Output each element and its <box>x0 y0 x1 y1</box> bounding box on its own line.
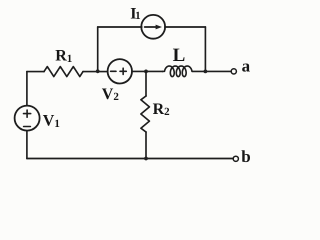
svg-text:I1: I1 <box>130 5 140 22</box>
wire R1 to V2 <box>83 71 108 73</box>
wire main left segment <box>27 71 44 73</box>
wire left branch upper vertical <box>26 72 28 106</box>
wire top loop left horizontal <box>98 26 142 28</box>
wire bottom <box>27 158 233 160</box>
svg-text:R1: R1 <box>55 48 72 65</box>
voltage source V1 <box>15 106 40 131</box>
wire V2 to inductor <box>132 70 163 72</box>
svg-text:V2: V2 <box>102 86 120 103</box>
wire top loop right horizontal <box>165 26 206 28</box>
junction dot at R2 top node <box>144 70 148 74</box>
wire R2 upper lead <box>145 71 147 96</box>
svg-text:b: b <box>241 147 250 166</box>
svg-text:R2: R2 <box>153 101 171 118</box>
svg-text:V1: V1 <box>43 113 60 130</box>
inductor L <box>163 66 192 77</box>
terminal b <box>233 156 238 161</box>
voltage source V2 <box>108 59 132 83</box>
junction dot at R2 bottom node <box>144 157 148 161</box>
wire top loop right vertical <box>204 27 206 71</box>
junction dot at inductor/top-loop node <box>204 70 208 74</box>
wire R2 lower lead <box>145 132 147 159</box>
terminal a <box>231 69 236 74</box>
current source I1 <box>141 15 165 39</box>
svg-text:L: L <box>173 45 186 66</box>
resistor R2 <box>141 96 150 132</box>
resistor R1 <box>44 67 83 77</box>
wire inductor to terminal a <box>192 70 231 72</box>
junction dot at R1/top-loop node <box>96 69 100 73</box>
svg-text:a: a <box>242 57 251 76</box>
wire top loop left vertical <box>97 27 99 71</box>
wire left branch lower vertical <box>26 131 28 159</box>
